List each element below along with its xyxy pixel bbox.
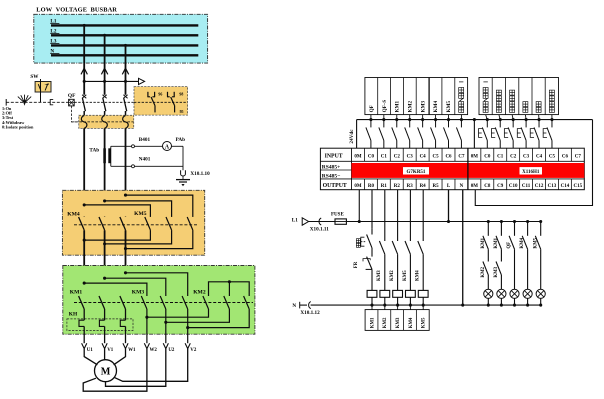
svg-text:R0: R0: [368, 184, 375, 189]
wire N401: [111, 165, 183, 167]
low voltage busbar enclosure (cyan): [34, 14, 208, 63]
svg-text:V1: V1: [107, 348, 114, 353]
KM mech dashed line: [74, 302, 253, 304]
QF operating mechanism box: [69, 99, 75, 106]
wire R0 branch top: [371, 190, 373, 229]
svg-text:X116H1: X116H1: [522, 170, 540, 175]
svg-text:C8: C8: [484, 184, 491, 189]
svg-text:R1: R1: [381, 184, 388, 189]
motor M: [95, 360, 117, 382]
input pushbutton contact strip2-2 -> C1: [491, 115, 501, 149]
input pushbutton contact strip2-6 -> C5: [543, 115, 553, 149]
svg-text:KM5: KM5: [422, 317, 427, 328]
wire phase A QF to KM4: [83, 128, 85, 216]
motor terminal V2: [185, 343, 197, 353]
wire output 0M to live bus: [358, 190, 361, 223]
ct secondary left link: [110, 146, 112, 166]
KM2 pole 2 contact: [228, 295, 230, 297]
manual switch contact (branch R0): [361, 228, 372, 254]
svg-text:0:Isolate position: 0:Isolate position: [2, 125, 34, 130]
svg-text:N401: N401: [139, 156, 151, 162]
coil KM1: [367, 290, 377, 306]
svg-text:95: 95: [180, 110, 184, 114]
strip2 cell 6 (CJK): [549, 90, 554, 112]
svg-text:PAb: PAb: [176, 137, 186, 143]
KM1 pole 3 contact: [125, 295, 127, 297]
svg-text:KM3: KM3: [420, 100, 426, 112]
withdrawable-contact arrow: [81, 68, 87, 74]
input pushbutton contact strip2-3 -> C2: [504, 115, 514, 149]
svg-text:LOW VOLTAGE BUSBAR: LOW VOLTAGE BUSBAR: [36, 7, 117, 14]
bracket symbol on control line: [50, 100, 53, 105]
KM5 pole 2 contact: [171, 216, 173, 218]
incoming arrow L1: [302, 218, 308, 225]
svg-text:KM2: KM2: [481, 266, 486, 277]
svg-text:C4: C4: [420, 154, 427, 159]
KM5 bottom jumper y243.9: [103, 230, 172, 245]
svg-text:KH: KH: [69, 311, 78, 317]
control line end terminal: [5, 99, 7, 106]
terminal strip 2 box: [479, 78, 559, 115]
contactor group KM4/KM5 box (orange): [62, 190, 204, 255]
manual switch label (CJK): [356, 239, 360, 248]
KM3 pole 2 lower wire: [165, 309, 167, 343]
svg-text:R2: R2: [394, 184, 401, 189]
QF trip element pole 1: [81, 115, 87, 128]
coil KM4: [406, 290, 416, 306]
svg-text:KM1: KM1: [494, 237, 499, 248]
wire B401: [111, 145, 163, 147]
input contact QF -> C0: [366, 115, 373, 149]
svg-text:KM2: KM2: [383, 317, 388, 328]
ammeter PAb: [163, 142, 172, 151]
lamp branch 2 contact KM1: [496, 220, 503, 289]
KM3 pole 1 contact: [146, 295, 148, 297]
input contact KM5 -> C6: [444, 115, 451, 149]
strip2 cell 3 (CJK): [510, 90, 515, 112]
wire R4 branch: [422, 190, 424, 241]
strip1 cell manual/auto (CJK): [459, 82, 464, 113]
lamp branch 3 contact QF: [509, 220, 516, 289]
KM3 pole 3 lower wire: [187, 309, 189, 343]
KH heater element pole 2: [99, 309, 104, 343]
ground drop wire: [182, 146, 184, 170]
feeder wire phase A from L1: [83, 25, 85, 94]
QF aux contact: [147, 92, 155, 113]
KM3 pole 1 lower wire: [146, 309, 148, 343]
svg-text:U2: U2: [168, 348, 175, 353]
svg-text:KM2: KM2: [193, 289, 206, 295]
QF pole 1 contact: [82, 95, 86, 116]
coil terminal strip KM1..KM5: [365, 305, 429, 330]
fuse body: [309, 219, 347, 224]
node phase A / tap line: [83, 80, 86, 83]
wire W1 to motor: [114, 349, 126, 365]
interlock contact KM2 (branch R2): [392, 241, 397, 290]
svg-text:L3: L3: [50, 39, 56, 45]
ground symbol: [176, 180, 190, 187]
KM5 bottom jumper y248.6: [124, 230, 193, 250]
KH heater element pole 3: [120, 309, 125, 343]
svg-text:KM3: KM3: [396, 317, 401, 328]
svg-text:N: N: [460, 184, 464, 189]
svg-text:C12: C12: [535, 184, 544, 189]
svg-text:KM2: KM2: [408, 100, 414, 112]
indicator lamp 2: [497, 289, 506, 306]
wire phase B QF to KM4: [104, 128, 106, 216]
svg-text:KM5: KM5: [134, 211, 147, 217]
strip2 cell 2 (CJK): [496, 90, 501, 112]
wire phase A KM4 to KM1: [83, 230, 85, 296]
busbar L1: [50, 19, 198, 26]
QF pole 2 contact: [103, 95, 107, 116]
svg-text:R5: R5: [433, 184, 440, 189]
svg-text:C7: C7: [575, 154, 582, 159]
thermal contact FR (branch R0): [363, 254, 372, 290]
svg-text:R4: R4: [420, 184, 427, 189]
coil KM5: [418, 290, 428, 306]
svg-text:KM1: KM1: [395, 100, 401, 112]
wire bus to input 0M: [356, 120, 358, 149]
svg-text:SW: SW: [30, 74, 39, 80]
KM5 top jumper y204.9: [83, 203, 151, 216]
indicator lamp 3: [510, 289, 519, 306]
wire ammeter to ground drop: [172, 145, 184, 147]
KM4 pole 2 contact: [104, 216, 106, 218]
KH dashed enclosure: [67, 319, 133, 331]
svg-text:N: N: [292, 303, 296, 309]
KH heater element pole 1: [79, 309, 84, 343]
wire output N down: [462, 190, 464, 305]
interlock contact KM5 (branch R3): [405, 241, 410, 290]
KM3 pole 3 contact: [187, 295, 189, 297]
svg-text:RS485+: RS485+: [322, 165, 340, 171]
svg-text:KM1: KM1: [481, 237, 486, 248]
svg-text:C9: C9: [497, 184, 504, 189]
KM1 pole 1 contact: [83, 295, 85, 297]
svg-text:KM1: KM1: [70, 290, 83, 296]
svg-text:INPUT: INPUT: [325, 154, 343, 160]
svg-text:QF: QF: [507, 242, 512, 249]
terminal arc L1: [319, 218, 321, 225]
svg-text:KM5: KM5: [403, 270, 408, 281]
control/linkage dashed line: [6, 101, 73, 103]
wire phase B KM4 to KM1: [104, 230, 106, 296]
strip2 cell 4 (CJK): [523, 102, 528, 113]
indicator lamp 1: [484, 289, 493, 306]
svg-text:W2: W2: [150, 348, 158, 353]
wire output L to live bus: [447, 190, 450, 223]
svg-text:X10.1.12: X10.1.12: [300, 310, 320, 316]
KM3 pole 2 contact: [165, 295, 167, 297]
svg-text:24Vdc: 24Vdc: [349, 129, 355, 144]
svg-text:KM4: KM4: [416, 270, 421, 281]
input contact KM2 -> C3: [405, 115, 412, 149]
svg-text:0M: 0M: [354, 184, 362, 189]
input contact manual/auto -> C7: [456, 115, 463, 149]
coil KM2: [380, 290, 390, 306]
svg-text:M: M: [101, 367, 111, 378]
busbar L2: [50, 29, 198, 36]
svg-text:98: 98: [179, 92, 183, 96]
motor terminal U1: [82, 343, 94, 353]
neutral bus: [311, 304, 541, 307]
svg-text:KM3: KM3: [132, 289, 145, 295]
table mid divider: [467, 148, 469, 190]
svg-text:L2: L2: [50, 29, 56, 35]
KM5 mech dashed line: [74, 224, 198, 226]
svg-text:W1: W1: [128, 348, 136, 353]
QF linkage inside aux box: [134, 101, 187, 103]
svg-text:FUSE: FUSE: [331, 212, 344, 217]
PLC terminal table frame: [320, 148, 584, 190]
interlock contact KM3 (branch R1): [379, 241, 384, 290]
wire bus to input 0M (2): [473, 118, 476, 148]
motor terminal W2: [144, 343, 157, 353]
svg-text:KM5: KM5: [533, 237, 538, 248]
KM5 pole 3 contact: [192, 216, 194, 218]
QF trip unit box (yellow): [79, 115, 134, 128]
svg-text:C7: C7: [458, 154, 465, 159]
PLC model tag 2: [520, 167, 543, 175]
svg-text:C1: C1: [497, 154, 504, 159]
input contact KM1 -> C2: [392, 115, 399, 149]
KM5 pole 1 contact: [149, 216, 151, 218]
svg-text:KM3: KM3: [377, 270, 382, 281]
ground terminal cup: [181, 170, 186, 179]
wire R1 branch: [384, 190, 386, 241]
input pushbutton contact strip2-5 -> C4: [530, 115, 540, 149]
wire phase C KM4 to KM1: [125, 230, 127, 296]
switch SW box: [35, 82, 51, 93]
svg-text:TAb: TAb: [89, 147, 99, 153]
KM2 crossover jumper y317.2: [145, 309, 208, 319]
withdrawable-contact arrow: [101, 68, 107, 74]
input pushbutton contact strip2-1 -> C0: [479, 115, 489, 149]
svg-text:QF: QF: [369, 105, 375, 112]
svg-text:L1: L1: [50, 19, 56, 25]
indicator lamp 4: [523, 289, 532, 306]
table cell labels: [354, 154, 582, 188]
svg-text:96: 96: [158, 92, 162, 96]
wire U1 to motor: [84, 349, 97, 365]
position legend text: [2, 106, 34, 130]
trip linkage line in box: [71, 121, 133, 123]
KM2 crossover jumper y322.3: [164, 309, 229, 324]
KM1 pole 2 contact: [104, 295, 106, 297]
svg-text:N: N: [50, 49, 54, 55]
PLC model tag 1: [403, 167, 429, 175]
feeder wire phase C from L3: [125, 45, 127, 94]
svg-text:B401: B401: [139, 137, 151, 143]
svg-text:KM4: KM4: [67, 212, 80, 218]
svg-text:KM5: KM5: [446, 100, 452, 112]
KM5 bottom jumper y240.1: [83, 230, 151, 241]
QF trip element pole 3: [123, 115, 129, 128]
svg-text:C15: C15: [574, 184, 583, 189]
svg-text:C5: C5: [433, 154, 440, 159]
wire V1 to motor: [104, 349, 106, 360]
svg-text:C2: C2: [394, 154, 401, 159]
RS485 red bar: [352, 163, 585, 178]
input contact QF&#8211;S -> C1: [379, 115, 386, 149]
svg-text:G7KR51: G7KR51: [407, 170, 426, 175]
svg-text:RS485−: RS485−: [322, 173, 340, 179]
motor lead to W2: [83, 349, 147, 392]
svg-text:C0: C0: [484, 154, 491, 159]
QF pole 3 contact: [123, 95, 127, 116]
svg-text:KM3: KM3: [494, 266, 499, 277]
svg-text:KM4: KM4: [520, 237, 525, 248]
svg-text:0M: 0M: [354, 154, 362, 159]
QF aux contact: [167, 92, 175, 113]
svg-text:C5: C5: [549, 154, 556, 159]
KM5 top jumper y195.1: [124, 194, 193, 217]
KM4 pole 3 contact: [125, 216, 127, 218]
wire SW to control line: [40, 79, 42, 102]
svg-text:U1: U1: [87, 348, 94, 353]
svg-text:C3: C3: [407, 154, 414, 159]
terminal N: [300, 302, 311, 309]
motor terminal U2: [163, 343, 175, 353]
KM2 crossover jumper y327.6: [186, 309, 249, 329]
feeder tap node on L2: [103, 34, 106, 37]
KM5 top jumper y200.9: [103, 199, 172, 216]
svg-text:0M: 0M: [471, 154, 479, 159]
motor lead to V2: [114, 349, 188, 382]
svg-text:C0: C0: [368, 154, 375, 159]
svg-text:KM4: KM4: [409, 317, 414, 328]
svg-text:QF–S: QF–S: [382, 100, 388, 113]
interlock contact KM4 (branch R4): [418, 241, 423, 290]
busbar N: [50, 49, 198, 56]
node phase B / tap line: [103, 80, 106, 83]
contactor group KM1/KM3/KM2 box (green): [63, 266, 255, 335]
QF linkage to aux contacts: [74, 101, 134, 103]
lamp branch 1 contact KM1: [483, 220, 490, 289]
terminal strip 1 box: [365, 78, 468, 115]
svg-text:FR: FR: [354, 261, 359, 268]
svg-text:R3: R3: [407, 184, 414, 189]
KM3 top jumper y272.8: [124, 271, 188, 296]
svg-text:C6: C6: [445, 154, 452, 159]
svg-text:V2: V2: [190, 348, 197, 353]
motor terminal V1: [102, 343, 114, 353]
bus link to output common: [475, 120, 592, 206]
wire phase C QF to KM4: [125, 128, 127, 216]
svg-text:L1: L1: [292, 218, 298, 224]
withdrawable-contact arrow: [122, 68, 128, 74]
svg-text:C13: C13: [548, 184, 557, 189]
QF mechanism linkage down: [71, 106, 78, 122]
coil KM3: [393, 290, 403, 306]
terminal circle N401: [132, 165, 135, 168]
svg-text:X10.1.11: X10.1.11: [310, 227, 329, 233]
feeder tap node on L3: [124, 44, 127, 47]
svg-text:C10: C10: [509, 184, 518, 189]
busbar L3: [50, 39, 198, 46]
QF trip element pole 2: [102, 115, 108, 128]
position-indicator fan symbol: [18, 95, 31, 106]
motor terminal W1: [123, 343, 136, 353]
svg-text:QF: QF: [68, 93, 76, 99]
motor lead to U2: [106, 349, 166, 387]
lamp branch 4 contact KM4: [522, 220, 529, 289]
indicator lamp 5: [536, 289, 545, 306]
KM3 top jumper y283.1: [83, 282, 147, 296]
svg-text:C11: C11: [522, 184, 531, 189]
KM2 star bus: [209, 280, 250, 296]
feeder tap node on L1: [83, 24, 86, 27]
svg-text:C6: C6: [562, 154, 569, 159]
input pushbutton contact strip2-4 -> C3: [517, 115, 527, 149]
svg-text:KM2: KM2: [390, 270, 395, 281]
svg-text:KM1: KM1: [370, 317, 375, 328]
metering tap line with arrow: [84, 78, 144, 84]
input contact KM3 -> C4: [418, 115, 425, 149]
input contact KM4 -> C5: [431, 115, 438, 149]
svg-text:C1: C1: [381, 154, 388, 159]
svg-text:OUTPUT: OUTPUT: [323, 183, 347, 189]
svg-text:KM4: KM4: [433, 100, 439, 112]
KM2 pole 3 contact: [248, 295, 250, 297]
current transformer TAb bars: [105, 148, 110, 163]
QF auxiliary contact box (yellow): [134, 87, 188, 116]
KM2 pole 1 contact: [208, 295, 210, 297]
24Vdc input bus: [357, 119, 593, 121]
control live bus: [346, 221, 540, 223]
lamp branch 5 contact KM5: [535, 220, 542, 289]
node phase C / tap line: [124, 80, 127, 83]
terminal circle B401: [132, 145, 135, 148]
strip2 cell 5 (CJK): [536, 102, 541, 113]
table cell dividers: [364, 148, 571, 190]
KM4 pole 1 contact: [83, 216, 85, 218]
svg-text:C2: C2: [510, 154, 517, 159]
svg-text:0M: 0M: [471, 184, 479, 189]
svg-text:C3: C3: [523, 154, 530, 159]
KM3 top jumper y278.2: [103, 277, 166, 296]
strip2 cell 1 (CJK): [483, 82, 488, 113]
svg-text:X10.1.10: X10.1.10: [190, 171, 210, 177]
feeder wire phase B from L2: [104, 35, 106, 95]
svg-text:C14: C14: [561, 184, 570, 189]
svg-text:C4: C4: [536, 154, 543, 159]
wire R3 branch: [409, 190, 411, 241]
wire R2 branch: [397, 190, 399, 241]
